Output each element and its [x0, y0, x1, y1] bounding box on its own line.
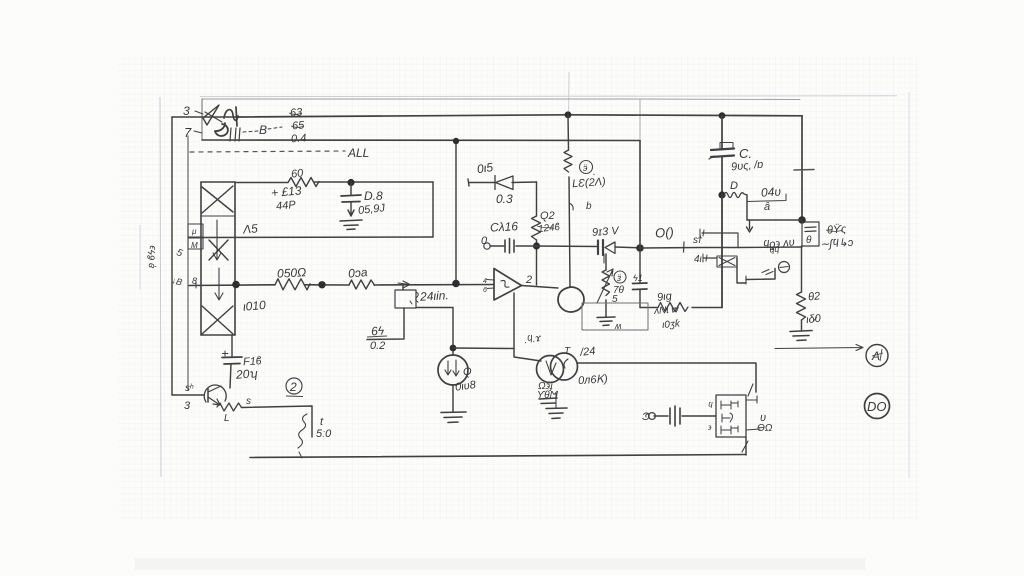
- label circled 3 pot: [614, 271, 626, 283]
- lower MOSFET gate wire: [703, 257, 717, 259]
- svg-text:0.3: 0.3: [496, 192, 513, 206]
- wire terminal to cap: [654, 415, 668, 417]
- diode D1 row open terminal: [468, 179, 469, 186]
- wire rail box to resistor: [801, 246, 803, 292]
- dashed line ALL: [190, 151, 345, 152]
- label bracket 040: [747, 194, 786, 207]
- cap terminal D circle: [649, 413, 656, 420]
- resistor 0.2: [349, 280, 375, 289]
- node dot D8 junction: [347, 179, 354, 186]
- lower gate ticks: [703, 254, 707, 262]
- IC glyph 1: [721, 401, 738, 409]
- node dot x456 bottom: [452, 280, 460, 288]
- wire cap to resistor R103: [640, 307, 658, 309]
- transistor Q1 inner arrows: [445, 360, 459, 376]
- svg-text:0: 0: [481, 235, 488, 247]
- diode D1: [495, 176, 513, 190]
- pot R70 zigzag: [602, 270, 610, 296]
- ground T pair: [546, 408, 567, 419]
- svg-text:b: b: [586, 201, 592, 212]
- svg-text:ALL: ALL: [347, 146, 369, 160]
- node label DO circle: [865, 394, 890, 419]
- vertical x569 chain: [568, 115, 570, 287]
- svg-text:M: M: [191, 241, 198, 250]
- wire y237 from small box to x433: [203, 236, 433, 239]
- tick on right rail: [794, 169, 814, 172]
- svg-text:124ϐ: 124ϐ: [538, 222, 561, 235]
- svg-text:0ι5: 0ι5: [476, 160, 494, 176]
- svg-text:D.8: D.8: [364, 189, 383, 203]
- bridge arrow1: [213, 220, 221, 260]
- pot R70 vertical: [605, 254, 607, 317]
- svg-text:3: 3: [183, 104, 190, 118]
- svg-text:5: 5: [612, 294, 618, 305]
- resistor 60: [288, 178, 319, 187]
- capacitor F16 plates: [222, 357, 242, 364]
- svg-text:θ: θ: [806, 235, 812, 246]
- wire D2 to x640: [615, 246, 640, 249]
- svg-text:Ͻ: Ͻ: [642, 411, 650, 423]
- wire R103 to x722: [692, 307, 722, 309]
- tall box bridge left edge: [200, 182, 202, 335]
- vertical x722 lower: [721, 195, 723, 308]
- relay K1 coil drop: [236, 107, 237, 126]
- resistor Q2 vertical: [532, 216, 541, 240]
- op-amp U1 output wire: [522, 286, 559, 289]
- chevrons: [762, 270, 773, 275]
- pin 3 tick: [195, 111, 203, 114]
- svg-text:0.2: 0.2: [370, 340, 385, 352]
- wire x640 node to gate row: [640, 247, 738, 250]
- balloon pass device circle: [558, 287, 584, 312]
- vertical x722 upper: [721, 116, 723, 195]
- svg-text:ӟ: ӟ: [616, 273, 621, 283]
- wire y279 to corner: [746, 269, 775, 280]
- IC bottom pin to rail: [745, 437, 747, 455]
- resistor R02 vertical: [797, 292, 806, 320]
- wire C116 to node: [516, 245, 537, 247]
- vertical chain x536: [536, 182, 538, 285]
- ground Q1: [441, 412, 466, 423]
- svg-text:ϒθϺ: ϒθϺ: [537, 390, 559, 401]
- svg-text:∼ʃϥ↳ɔ: ∼ʃϥ↳ɔ: [820, 237, 855, 251]
- faint page line left: [139, 225, 141, 290]
- transistor Q3 emitter arrow: [208, 397, 220, 405]
- pot R70 wiper arrow: [597, 269, 613, 303]
- transistor pair inner marks: [546, 361, 556, 375]
- pin 7 tick: [194, 131, 202, 133]
- wire y220 to right rail: [747, 219, 802, 221]
- capacitor C11 plates: [633, 283, 648, 290]
- faint page left border: [160, 97, 161, 477]
- transistor Q3 circle: [204, 385, 226, 402]
- transistor Q1 circle: [438, 355, 468, 385]
- node dot after 050H: [318, 281, 325, 288]
- svg-text:϶: ϶: [707, 423, 712, 432]
- svg-text:4: 4: [483, 278, 487, 285]
- box 24Lin: [395, 290, 416, 308]
- svg-text:050Ω: 050Ω: [277, 265, 307, 281]
- IC glyph 3: [721, 426, 738, 434]
- svg-text:B: B: [259, 123, 267, 137]
- crossing tick on wire: [683, 242, 686, 252]
- wire gate row to right rail: [738, 246, 802, 249]
- box 025 cap marks: [805, 227, 816, 232]
- wire: right rail x802 down to node: [801, 116, 803, 220]
- wire: top thin box top edge: [202, 98, 800, 101]
- capacitor bars before D2: [598, 240, 603, 255]
- arrow to node A: [775, 345, 863, 351]
- node: dot right rail y220: [798, 216, 806, 224]
- svg-text:ᴧNɩ ᴡ: ᴧNɩ ᴡ: [653, 304, 680, 317]
- bridge arrow2: [215, 268, 223, 300]
- wire: pin3 stub into relay K1: [172, 116, 236, 118]
- wire into transistor Q3: [172, 394, 204, 396]
- svg-text:3: 3: [184, 400, 191, 412]
- svg-text:0.4: 0.4: [291, 132, 307, 145]
- svg-text:Cλ16: Cλ16: [490, 219, 519, 234]
- relay K1 spiral loop: [215, 123, 228, 136]
- svg-text:0ᴫ6Ꮶ): 0ᴫ6Ꮶ): [578, 373, 609, 387]
- svg-text:+ £13: + £13: [271, 183, 303, 200]
- svg-text:7: 7: [184, 125, 192, 140]
- svg-text:sϯ: sϯ: [693, 234, 703, 246]
- ground R02: [790, 331, 812, 341]
- svg-text:4ι: 4ι: [694, 254, 703, 265]
- ground pot: [597, 317, 615, 326]
- small box mu: [188, 224, 203, 237]
- box 025: [802, 222, 819, 246]
- wire x514 to T pair: [514, 349, 541, 362]
- wire cap to IC: [682, 415, 716, 417]
- bottom rail: [250, 455, 746, 458]
- scan band bottom: [135, 558, 865, 570]
- relay K1 coil hump: [224, 110, 238, 121]
- cap F16 lead down: [230, 364, 231, 388]
- tall box bridge bottom edge: [201, 334, 235, 336]
- wire: top thin box left edge: [201, 99, 203, 140]
- transistor Q3 base bar: [207, 388, 209, 402]
- capacitor C116 bars: [505, 239, 514, 254]
- node dot above Q1: [450, 345, 457, 352]
- wire: top thin box bottom edge y140: [202, 139, 640, 142]
- svg-text:9ιg: 9ιg: [657, 290, 674, 304]
- svg-text:s: s: [246, 396, 251, 407]
- svg-text:0ͻa: 0ͻa: [348, 265, 369, 281]
- wire corner x433 down: [432, 182, 434, 237]
- vertical x640 from thin box: [639, 141, 641, 249]
- small box M: [188, 238, 203, 249]
- bridge X2: [209, 240, 228, 260]
- label circled 3 top: [580, 161, 593, 174]
- node dot x722 y195: [718, 191, 725, 198]
- capacitor D8 plates: [341, 195, 361, 202]
- svg-text:2: 2: [289, 380, 297, 394]
- svg-text:Λ5: Λ5: [241, 221, 258, 236]
- op-amp U1 triangle: [494, 269, 522, 301]
- svg-text:O(): O(): [655, 224, 675, 240]
- relay/solenoid K1 triangle: [203, 105, 219, 125]
- svg-text:5ː0: 5ː0: [316, 428, 332, 440]
- resistor D squiggle: [724, 193, 747, 198]
- relay K1 core hatch: [230, 128, 240, 141]
- C116 open terminal: [484, 243, 490, 249]
- svg-text:ι010: ι010: [242, 298, 266, 314]
- tall box bridge right edge: [234, 182, 236, 335]
- wire: main top rail y116: [236, 115, 802, 117]
- stub arrow from y220: [747, 220, 753, 232]
- wire pair to right corner: [577, 363, 756, 392]
- svg-text:ιδ̷0: ιδ̷0: [806, 313, 823, 327]
- faint page line right: [908, 92, 910, 478]
- svg-text:D: D: [730, 180, 738, 192]
- node: dot on rail x722: [719, 112, 726, 119]
- svg-text:ι0ӡƙ: ι0ӡƙ: [662, 318, 682, 331]
- wire node to D2: [537, 245, 598, 248]
- svg-text:/24: /24: [579, 345, 596, 359]
- pair cap marks: [539, 398, 557, 404]
- svg-text:20ʮ: 20ʮ: [235, 366, 258, 382]
- wire: left outer vertical x172: [171, 117, 173, 395]
- pair ground stem: [555, 393, 557, 408]
- small tick y279: [745, 276, 747, 284]
- svg-text:ʍ: ʍ: [614, 321, 622, 331]
- main row y285: [189, 285, 494, 286]
- op-amp U1 pin ticks: [487, 280, 494, 289]
- node dot C116 junction: [533, 242, 540, 249]
- squiggle tail: [299, 452, 302, 458]
- hook on x569: [569, 203, 573, 210]
- feedback path from box bottom: [367, 308, 404, 340]
- svg-text:sʰ: sʰ: [185, 383, 194, 394]
- cap F16 plus tick: [223, 351, 229, 356]
- arrow on wire before box: [398, 281, 410, 288]
- vertical x640 node to cap11: [639, 248, 641, 283]
- capacitor D8 lead bottom w arrow: [348, 202, 354, 216]
- svg-text:44P: 44P: [276, 199, 297, 213]
- node label A circle: [866, 345, 888, 367]
- svg-text:ϴΩ: ϴΩ: [757, 423, 773, 434]
- wire resistor L to corner: [242, 406, 313, 437]
- capacitor C905 plates: [711, 149, 734, 158]
- capacitor C905 top box: [720, 143, 733, 149]
- resistor D drop to y220: [746, 195, 748, 220]
- svg-text:θϔς: θϔς: [827, 223, 848, 236]
- diode D2: [605, 242, 615, 254]
- IC glyph 2: [722, 413, 733, 422]
- wire: inner vertical x188: [187, 136, 189, 390]
- gate tick marks: [700, 229, 704, 237]
- resistor LE vertical: [564, 150, 572, 172]
- capacitor 3 bars: [670, 406, 680, 426]
- op-amp U1 gain squiggle: [501, 280, 509, 287]
- resistor L zigzag: [217, 403, 242, 411]
- bridge X1: [202, 186, 233, 213]
- path box right to Q1: [416, 308, 453, 356]
- node: dot on rail x568: [565, 111, 572, 118]
- svg-text:L: L: [224, 413, 230, 424]
- wire y182 from bridge to corner: [236, 181, 433, 184]
- tick into 24Lin box: [402, 286, 404, 290]
- squiggle at box right: [416, 292, 419, 302]
- svg-text:ϥ: ϥ: [708, 401, 713, 410]
- bridge X3: [202, 306, 233, 334]
- pot enclosure box: [582, 303, 648, 330]
- circled theta: [779, 262, 790, 273]
- capacitor F16 lead from bridge: [231, 335, 233, 357]
- pin slash into U box: [748, 384, 753, 396]
- gate wire upper MOSFET: [702, 233, 738, 248]
- svg-text:2: 2: [525, 274, 532, 286]
- inductor squiggle: [298, 414, 307, 448]
- svg-text:24ιin.: 24ιin.: [419, 288, 449, 304]
- faint bleed-through stub above rail: [568, 72, 571, 114]
- ground D8: [340, 220, 362, 230]
- svg-text:LƐ(2Λ): LƐ(2Λ): [572, 176, 607, 190]
- tall box bridge top edge: [201, 181, 235, 183]
- svg-text:T: T: [564, 346, 571, 357]
- wire under op-amp x514 down: [513, 293, 515, 348]
- node dot row at bridge: [232, 281, 240, 289]
- IC right pin bottom: [746, 429, 760, 430]
- wire terminal to diode D1: [469, 182, 494, 184]
- svg-text:ϟ1: ϟ1: [633, 273, 643, 283]
- svg-text:DO: DO: [867, 399, 887, 414]
- faint page top border: [200, 95, 897, 98]
- wire: right edge of thin box x640 upper: [639, 99, 641, 140]
- IC right pin top: [746, 396, 757, 403]
- resistor R02 lead to ground: [801, 320, 803, 331]
- dashed arrow to B: [243, 127, 282, 132]
- lower MOSFET box: [717, 256, 737, 267]
- svg-text:Q: Q: [463, 366, 472, 378]
- svg-text:Q2: Q2: [540, 210, 555, 222]
- svg-text:ӭ: ӭ: [583, 163, 588, 173]
- transistor Q3 collector: [208, 386, 221, 392]
- capacitor D8 lead top: [350, 183, 352, 196]
- svg-text:θ2: θ2: [808, 290, 821, 303]
- IC box U: [716, 395, 746, 437]
- transistor pair T circles: [537, 356, 564, 383]
- wire Q1 to x514: [453, 347, 514, 350]
- svg-text:8: 8: [192, 276, 197, 286]
- vertical x456: [455, 141, 457, 283]
- node dot x640: [636, 244, 644, 252]
- svg-text:04ʋ: 04ʋ: [761, 184, 782, 199]
- cap C11 lead down: [639, 290, 641, 308]
- wire diode D1 to x536: [512, 181, 537, 184]
- node dot x456 top: [453, 138, 459, 144]
- svg-text:ʚ̦ ϐϟ϶: ʚ̦ ϐϟ϶: [146, 245, 158, 269]
- resistor 050H: [275, 279, 310, 290]
- lower MOSFET box X: [719, 258, 735, 266]
- svg-text:μ: μ: [191, 227, 197, 236]
- transistor Q1 ground stem: [452, 385, 454, 412]
- svg-text:6: 6: [483, 287, 487, 294]
- bridge divider: [201, 215, 235, 217]
- lower MOSFET drain path: [737, 258, 746, 283]
- IC bottom pin slash: [742, 441, 748, 452]
- svg-text:ȃ: ȃ: [764, 201, 770, 213]
- resistor R103 zigzag: [658, 303, 688, 312]
- svg-text:9ɪ3 V: 9ɪ3 V: [592, 225, 621, 239]
- wire C116 terminal: [490, 245, 504, 247]
